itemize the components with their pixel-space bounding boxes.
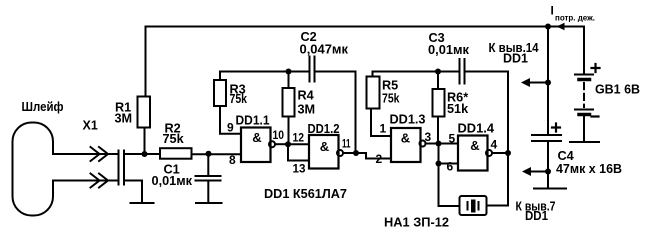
- wire: pin6: [439, 163, 459, 165]
- wire: R5 top to rail3: [373, 72, 459, 77]
- wire: R4 bottom lead: [288, 117, 290, 145]
- wire + arrow to pin 14: [528, 82, 548, 84]
- wire: junction to pin13: [288, 144, 309, 160]
- wire: pin4 to vertical: [493, 152, 509, 154]
- plus sign C4: [552, 124, 560, 132]
- svg-text:GB1 6В: GB1 6В: [595, 83, 640, 97]
- svg-text:&: &: [470, 138, 479, 153]
- svg-text:9: 9: [227, 121, 234, 135]
- node DD1.4 output junction: [505, 150, 511, 156]
- svg-text:0,01мк: 0,01мк: [152, 174, 193, 188]
- wire: pin11 to junction: [344, 152, 357, 154]
- resistor R5: [367, 77, 380, 109]
- wire: R6 top lead: [437, 72, 439, 90]
- wire: junction to pin12: [288, 143, 309, 145]
- node R4 top junction: [286, 69, 292, 75]
- node DD1.3 output junction: [436, 141, 442, 147]
- ground bar under C1: [196, 202, 222, 204]
- svg-text:DD1.3: DD1.3: [390, 113, 426, 127]
- capacitor C1: [196, 176, 221, 181]
- svg-text:&: &: [252, 130, 261, 145]
- wire: loop top to X1: [53, 153, 118, 155]
- wire: C3 right to DD1.4 output line: [465, 72, 509, 154]
- svg-text:3М: 3М: [298, 103, 316, 117]
- loop (Шлейф): [13, 123, 54, 216]
- resistor R4: [283, 88, 295, 117]
- svg-text:5: 5: [449, 132, 456, 146]
- capacitor C3: [460, 59, 465, 84]
- svg-text:X1: X1: [83, 119, 98, 133]
- capacitor C2: [310, 57, 315, 82]
- node top rail junction: [545, 24, 551, 30]
- svg-text:3: 3: [425, 130, 432, 144]
- svg-text:DD1 К561ЛА7: DD1 К561ЛА7: [264, 187, 347, 201]
- battery dashed link: [583, 83, 585, 107]
- resistor R2: [160, 148, 192, 159]
- svg-text:DD1.4: DD1.4: [458, 122, 495, 136]
- ground bar left: [131, 202, 154, 204]
- wire: vertical down to buzzer right: [487, 153, 509, 206]
- svg-text:Шлейф: Шлейф: [22, 99, 64, 114]
- svg-text:НА1 ЗП-12: НА1 ЗП-12: [384, 216, 449, 230]
- wire: C2 right to DD1.2 output: [315, 72, 356, 154]
- inversion circle DD1.2 output pin11: [337, 150, 343, 156]
- svg-text:4: 4: [491, 138, 498, 152]
- top rail wire: [146, 26, 585, 28]
- wire: R5 bottom to pin1: [371, 109, 391, 137]
- logic gate DD1.4: [458, 136, 488, 171]
- wire: junction to DD1.3 pin2: [356, 153, 391, 159]
- capacitor C4: [532, 135, 561, 141]
- node DD1.1 output junction: [285, 141, 291, 147]
- node DD1.2 output junction: [353, 150, 359, 156]
- svg-text:75k: 75k: [230, 92, 248, 106]
- wire: battery bottom lead: [583, 117, 585, 142]
- wire: C1 bottom lead: [207, 182, 209, 203]
- wire: battery top lead: [583, 27, 585, 74]
- svg-text:DD1: DD1: [503, 52, 528, 66]
- svg-text:0,01мк: 0,01мк: [428, 43, 470, 57]
- svg-text:2: 2: [376, 152, 383, 166]
- svg-text:10: 10: [273, 128, 285, 142]
- wire: X1 top to R2: [124, 153, 160, 155]
- ground bar under battery: [570, 141, 599, 143]
- wire: R3 bottom to pin9: [220, 106, 241, 134]
- svg-text:0,047мк: 0,047мк: [300, 43, 349, 57]
- wire + arrow to pin 7: [529, 171, 548, 173]
- ground bar under C4: [534, 188, 566, 190]
- svg-text:8: 8: [229, 153, 236, 167]
- wire: pin10 to junction: [275, 143, 288, 145]
- wire: R2 to DD1.1 pin8: [192, 153, 242, 155]
- svg-text:51k: 51k: [447, 102, 469, 116]
- connector X1 chevron top wire: [91, 147, 109, 161]
- svg-text:DD1.2: DD1.2: [308, 122, 340, 136]
- wire: R4 top lead: [288, 72, 290, 89]
- wire: R1 vertical from top rail: [145, 27, 147, 97]
- logic gate DD1.3: [391, 128, 421, 162]
- wire: C4 bottom to ground: [547, 142, 549, 188]
- current arrow Iпотр: [557, 23, 565, 31]
- node pin6 tap: [436, 161, 442, 167]
- resistor R1: [138, 97, 151, 128]
- svg-text:DD1: DD1: [525, 209, 548, 223]
- battery GB1 cell1 short plate: [579, 78, 590, 82]
- connector X1 socket bars: [119, 151, 125, 185]
- battery GB1 cell2 short plate: [579, 113, 590, 117]
- wire: R3 top to rail2: [220, 72, 309, 81]
- resistor R3: [214, 80, 226, 106]
- svg-text:75k: 75k: [382, 92, 400, 106]
- svg-text:потр. деж.: потр. деж.: [555, 13, 595, 23]
- logic gate DD1.1: [241, 128, 271, 163]
- svg-text:R5: R5: [382, 79, 398, 93]
- svg-text:75k: 75k: [163, 132, 185, 146]
- inversion circle DD1.3 output pin3: [420, 141, 426, 147]
- svg-text:&: &: [401, 131, 410, 146]
- svg-text:&: &: [320, 139, 329, 154]
- node R6 top junction: [435, 69, 441, 75]
- svg-text:DD1.1: DD1.1: [236, 114, 270, 128]
- svg-text:6: 6: [447, 160, 454, 174]
- svg-text:13: 13: [293, 162, 306, 176]
- node pin14 tap: [545, 80, 551, 86]
- wire: X1 bottom to ground: [124, 181, 142, 203]
- inversion circle DD1.4 output pin4: [486, 150, 492, 156]
- resistor R6: [433, 89, 445, 117]
- svg-text:I: I: [551, 4, 554, 18]
- logic gate DD1.2: [309, 135, 339, 169]
- inversion circle DD1.1 output pin10: [269, 141, 275, 147]
- connector X1 chevron bottom wire: [91, 174, 109, 188]
- battery GB1 cell1 long plate: [575, 74, 593, 76]
- wire: pin3 to DD1.4 pin5: [426, 143, 458, 145]
- svg-text:R4: R4: [298, 89, 314, 103]
- buzzer HA1 piezo element: [468, 202, 479, 210]
- svg-text:11: 11: [342, 137, 351, 151]
- battery GB1 cell2 long plate: [575, 109, 593, 111]
- svg-text:47мк x 16В: 47мк x 16В: [556, 162, 622, 176]
- buzzer HA1 body: [460, 196, 487, 215]
- node pin7 tap: [545, 169, 551, 175]
- svg-text:1: 1: [380, 122, 387, 136]
- svg-text:C4: C4: [558, 149, 574, 163]
- wire: loop bottom to X1: [53, 180, 118, 182]
- wire: junction down to buzzer left: [439, 144, 460, 207]
- svg-text:12: 12: [293, 131, 305, 145]
- minus sign battery: [592, 115, 599, 117]
- wire: C1 top lead: [207, 154, 209, 175]
- plus sign battery: [592, 64, 600, 72]
- svg-text:3М: 3М: [115, 112, 133, 126]
- wire: main vertical supply: [547, 27, 549, 135]
- node C1 junction: [206, 151, 212, 157]
- wire: R1 bottom lead: [144, 128, 146, 155]
- node R1 bottom junction: [142, 151, 148, 157]
- wire: R6 bottom lead: [437, 117, 439, 144]
